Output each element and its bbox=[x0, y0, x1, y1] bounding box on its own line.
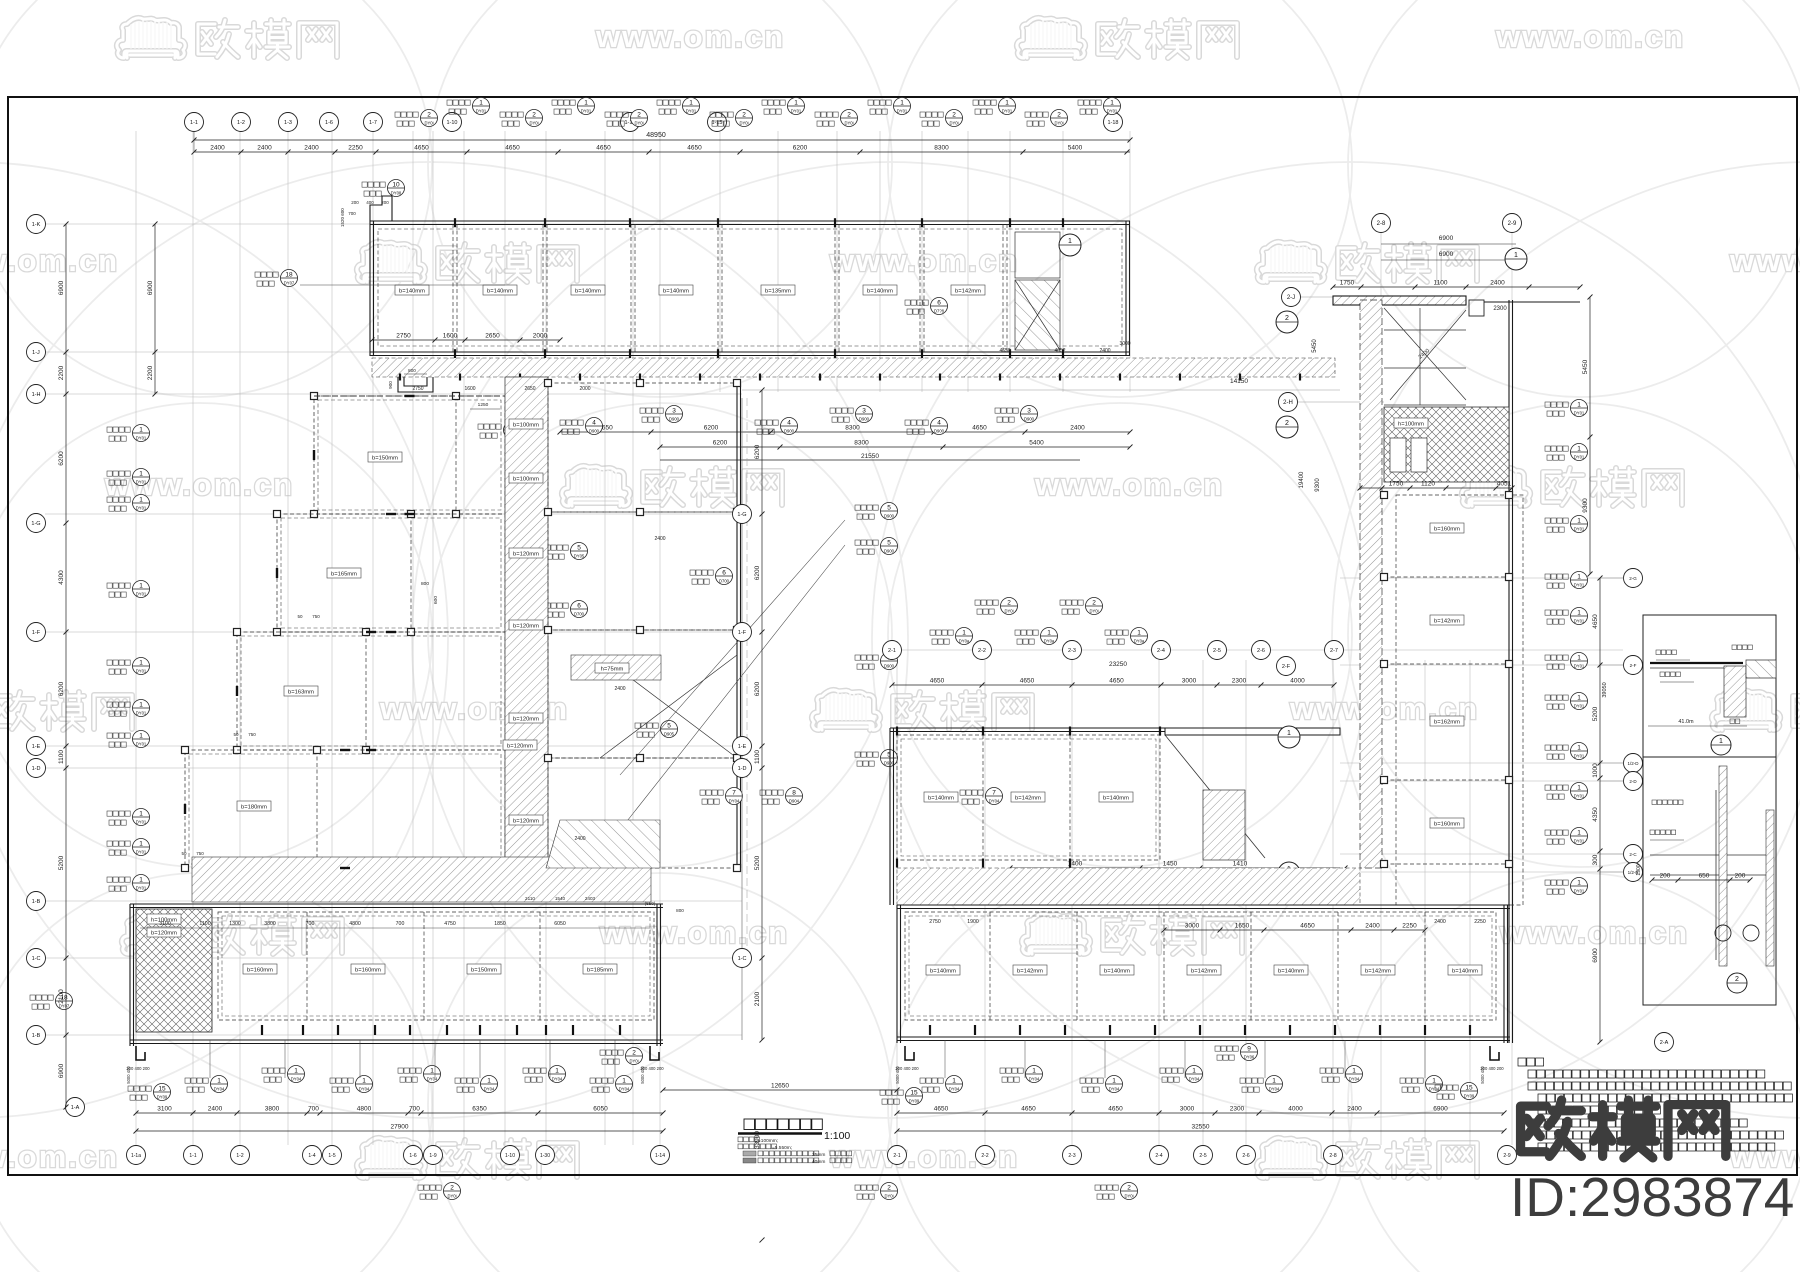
svg-text:1850: 1850 bbox=[494, 921, 506, 927]
svg-text:DY01: DY01 bbox=[686, 109, 697, 114]
svg-text:5450: 5450 bbox=[1312, 339, 1318, 353]
svg-text:b=142mm: b=142mm bbox=[1015, 796, 1041, 802]
top wing room labels bbox=[395, 285, 985, 295]
svg-text:3: 3 bbox=[862, 408, 866, 415]
svg-text:15: 15 bbox=[1465, 1085, 1473, 1092]
svg-text:4650: 4650 bbox=[934, 1106, 949, 1113]
svg-text:1: 1 bbox=[555, 1068, 559, 1075]
svg-text:DY09: DY09 bbox=[157, 1095, 168, 1100]
svg-text:1100: 1100 bbox=[754, 750, 761, 764]
svg-text:DY01: DY01 bbox=[897, 109, 908, 114]
svg-text:2-8: 2-8 bbox=[1377, 221, 1386, 227]
svg-text:www.om.cn: www.om.cn bbox=[1495, 19, 1685, 54]
svg-text:4650: 4650 bbox=[1020, 678, 1035, 685]
svg-text:200: 200 bbox=[381, 200, 389, 205]
svg-text:1: 1 bbox=[952, 1078, 956, 1085]
svg-text:400: 400 bbox=[366, 200, 374, 205]
svg-text:2-3: 2-3 bbox=[1068, 648, 1076, 654]
svg-text:750: 750 bbox=[196, 851, 204, 856]
svg-text:2: 2 bbox=[742, 112, 746, 119]
svg-text:2: 2 bbox=[1285, 420, 1289, 427]
svg-text:b=120mm: b=120mm bbox=[513, 717, 539, 723]
svg-text:b=120mm: b=120mm bbox=[507, 744, 533, 750]
right bottom grid bubbles bbox=[888, 1146, 1517, 1165]
dims under top wing bbox=[372, 339, 560, 341]
svg-text:b=142mm: b=142mm bbox=[1365, 969, 1391, 975]
svg-text:4051: 4051 bbox=[1497, 481, 1512, 488]
svg-text:1: 1 bbox=[139, 583, 143, 590]
svg-text:5200: 5200 bbox=[58, 855, 65, 870]
svg-text:www.om.cn: www.om.cn bbox=[0, 243, 119, 278]
svg-text:4300: 4300 bbox=[58, 570, 65, 585]
svg-text:DY01: DY01 bbox=[136, 850, 147, 855]
svg-text:2: 2 bbox=[952, 112, 956, 119]
svg-text:1: 1 bbox=[1047, 630, 1051, 637]
svg-text:3100: 3100 bbox=[157, 1106, 172, 1113]
svg-text:DY01: DY01 bbox=[1574, 583, 1585, 588]
svg-text:1: 1 bbox=[1719, 738, 1723, 745]
svg-text:2-G: 2-G bbox=[1629, 576, 1637, 581]
svg-text:2400: 2400 bbox=[1099, 348, 1110, 354]
svg-text:1: 1 bbox=[139, 733, 143, 740]
top dim chain bbox=[194, 151, 1130, 153]
callouts under wing bbox=[560, 406, 1038, 435]
svg-text:4650: 4650 bbox=[999, 348, 1010, 354]
svg-text:b=150mm: b=150mm bbox=[372, 456, 398, 462]
svg-text:1-1: 1-1 bbox=[190, 120, 198, 126]
svg-text:1: 1 bbox=[1577, 446, 1581, 453]
svg-text:DY0a: DY0a bbox=[959, 639, 970, 644]
inner left vdim bbox=[154, 224, 156, 394]
bottom-left callouts bbox=[128, 1048, 643, 1101]
svg-text:4652: 4652 bbox=[1054, 348, 1065, 354]
svg-text:1750: 1750 bbox=[1389, 481, 1404, 488]
detail box 2 bbox=[1636, 757, 1776, 1005]
svg-text:1-1a: 1-1a bbox=[131, 1153, 141, 1159]
right building bubble row bbox=[883, 641, 1344, 676]
svg-text:DY01: DY01 bbox=[1574, 794, 1585, 799]
svg-text:1: 1 bbox=[900, 100, 904, 107]
svg-text:1-2: 1-2 bbox=[237, 120, 245, 126]
right bottom wing bbox=[897, 905, 1510, 1043]
svg-text:DY01: DY01 bbox=[1574, 704, 1585, 709]
svg-text:1-18: 1-18 bbox=[1107, 120, 1118, 126]
svg-text:DY01: DY01 bbox=[136, 669, 147, 674]
svg-text:DY0i: DY0i bbox=[447, 1194, 456, 1199]
svg-text:b=142mm: b=142mm bbox=[1017, 969, 1043, 975]
svg-text:DY01: DY01 bbox=[136, 592, 147, 597]
svg-text:7: 7 bbox=[992, 790, 996, 797]
svg-text:1540: 1540 bbox=[555, 896, 566, 901]
svg-text:6200: 6200 bbox=[754, 565, 761, 580]
svg-text:DY01: DY01 bbox=[136, 480, 147, 485]
svg-text:1-1: 1-1 bbox=[189, 1153, 196, 1159]
svg-text:1: 1 bbox=[294, 1068, 298, 1075]
svg-text:650: 650 bbox=[1699, 873, 1710, 880]
svg-text:1: 1 bbox=[1287, 730, 1291, 737]
svg-text:1-5: 1-5 bbox=[328, 1153, 335, 1159]
svg-text:2-1: 2-1 bbox=[893, 1153, 900, 1159]
svg-text:9300: 9300 bbox=[1582, 498, 1589, 513]
mid bubbles column bbox=[733, 505, 752, 968]
tower walls bbox=[1333, 296, 1580, 1043]
svg-text:4650: 4650 bbox=[930, 678, 945, 685]
svg-text:b=140mm: b=140mm bbox=[928, 796, 954, 802]
svg-text:1-C: 1-C bbox=[32, 956, 41, 962]
svg-text:DY07: DY07 bbox=[284, 281, 295, 286]
svg-text:1: 1 bbox=[1110, 100, 1114, 107]
svg-text:1: 1 bbox=[139, 877, 143, 884]
svg-text:2750: 2750 bbox=[396, 333, 411, 340]
svg-text:D700: D700 bbox=[719, 579, 730, 584]
svg-text:2250: 2250 bbox=[1474, 919, 1486, 925]
svg-text:1750: 1750 bbox=[1340, 280, 1355, 287]
svg-text:D900: D900 bbox=[669, 417, 680, 422]
right column rooms bbox=[1381, 492, 1524, 906]
svg-text:2-J: 2-J bbox=[1287, 295, 1295, 301]
svg-text:2: 2 bbox=[427, 112, 431, 119]
svg-text:6200: 6200 bbox=[704, 425, 719, 432]
svg-text:2: 2 bbox=[1285, 315, 1289, 322]
svg-text:DY04: DY04 bbox=[619, 1087, 630, 1092]
svg-text:DY01: DY01 bbox=[1574, 411, 1585, 416]
svg-text:5: 5 bbox=[577, 545, 581, 552]
mid vertical dim chain bbox=[761, 390, 763, 1040]
svg-text:DY0i: DY0i bbox=[1054, 121, 1063, 126]
svg-text:1: 1 bbox=[139, 427, 143, 434]
left grid bubbles bbox=[27, 215, 85, 1117]
svg-text:3: 3 bbox=[1027, 408, 1031, 415]
svg-text:1-E: 1-E bbox=[32, 744, 41, 750]
svg-text:www.om.cn: www.om.cn bbox=[0, 1139, 119, 1174]
svg-text:www.om.cn: www.om.cn bbox=[595, 19, 785, 54]
svg-text:4000: 4000 bbox=[1288, 1106, 1303, 1113]
svg-text:DY09: DY09 bbox=[1464, 1094, 1475, 1099]
svg-text:2300: 2300 bbox=[1493, 306, 1507, 312]
svg-text:1-F: 1-F bbox=[32, 630, 41, 636]
svg-text:DY0i: DY0i bbox=[739, 121, 748, 126]
svg-text:D900: D900 bbox=[884, 664, 895, 669]
svg-text:3000: 3000 bbox=[1185, 923, 1200, 930]
svg-text:3000: 3000 bbox=[1180, 1106, 1195, 1113]
stepped room mid-edge ticks bbox=[185, 396, 415, 868]
svg-text:800: 800 bbox=[408, 368, 416, 373]
svg-text:1: 1 bbox=[217, 1078, 221, 1085]
svg-text:DY01: DY01 bbox=[136, 886, 147, 891]
svg-text:6200: 6200 bbox=[754, 681, 761, 696]
svg-text:DY01: DY01 bbox=[1574, 527, 1585, 532]
svg-text:2: 2 bbox=[1007, 600, 1011, 607]
svg-text:DY01: DY01 bbox=[1002, 109, 1013, 114]
bottom-left corridor hatch bbox=[192, 857, 651, 902]
svg-text:5000 400: 5000 400 bbox=[640, 1066, 645, 1084]
svg-text:1-9: 1-9 bbox=[429, 1153, 436, 1159]
svg-text:b=142mm: b=142mm bbox=[1191, 969, 1217, 975]
tower hatched shaft wall bbox=[1360, 300, 1382, 868]
svg-text:700: 700 bbox=[409, 1106, 420, 1113]
svg-text:DY0i: DY0i bbox=[949, 121, 958, 126]
svg-text:DY04: DY04 bbox=[1029, 1077, 1040, 1082]
svg-text:41.0m: 41.0m bbox=[1678, 719, 1694, 725]
svg-text:6200: 6200 bbox=[58, 451, 65, 466]
svg-text:1: 1 bbox=[794, 100, 798, 107]
svg-text:b=140mm: b=140mm bbox=[867, 289, 893, 295]
svg-text:DY04: DY04 bbox=[1429, 1087, 1440, 1092]
svg-text:1: 1 bbox=[430, 1068, 434, 1075]
svg-text:39050: 39050 bbox=[1602, 682, 1608, 697]
svg-text:DY04: DY04 bbox=[1349, 1077, 1360, 1082]
svg-text:www.om.cn: www.om.cn bbox=[1729, 243, 1800, 278]
svg-text:DY0i: DY0i bbox=[634, 121, 643, 126]
svg-text:8: 8 bbox=[792, 790, 796, 797]
left building vertical corridor bbox=[505, 377, 548, 868]
svg-text:6900: 6900 bbox=[1433, 1106, 1448, 1113]
svg-text:1: 1 bbox=[622, 1078, 626, 1085]
svg-text:1: 1 bbox=[1032, 1068, 1036, 1075]
svg-text:1: 1 bbox=[139, 841, 143, 848]
svg-text:2-6: 2-6 bbox=[1242, 1153, 1249, 1159]
svg-text:2-4: 2-4 bbox=[1155, 1153, 1162, 1159]
svg-text:4650: 4650 bbox=[1021, 1106, 1036, 1113]
svg-text:1:100: 1:100 bbox=[824, 1130, 850, 1142]
tower top bubbles bbox=[1372, 214, 1528, 271]
svg-text:5000 400: 5000 400 bbox=[126, 1066, 131, 1084]
svg-text:1900: 1900 bbox=[1636, 864, 1642, 875]
svg-text:DY04: DY04 bbox=[949, 1087, 960, 1092]
svg-text:1: 1 bbox=[139, 660, 143, 667]
svg-text:2400: 2400 bbox=[257, 145, 272, 152]
svg-text:b=140mm: b=140mm bbox=[1278, 969, 1304, 975]
svg-text:6: 6 bbox=[937, 300, 941, 307]
svg-text:2-5: 2-5 bbox=[1213, 648, 1221, 654]
svg-text:4000: 4000 bbox=[1290, 678, 1305, 685]
right vertical dim chain bbox=[1599, 578, 1601, 1042]
svg-text:D900: D900 bbox=[884, 549, 895, 554]
top wing stair bbox=[1015, 232, 1081, 350]
svg-text:35mm: 35mm bbox=[812, 1152, 825, 1158]
svg-text:DY05: DY05 bbox=[574, 554, 585, 559]
svg-text:www.om.cn: www.om.cn bbox=[104, 467, 294, 502]
svg-text:9: 9 bbox=[1247, 1046, 1251, 1053]
svg-text:DY01: DY01 bbox=[136, 742, 147, 747]
svg-text:1100: 1100 bbox=[58, 750, 65, 764]
svg-text:1: 1 bbox=[1352, 1068, 1356, 1075]
svg-text:1-A: 1-A bbox=[71, 1105, 80, 1111]
svg-text:4: 4 bbox=[937, 420, 941, 427]
top wing room dividers bbox=[378, 218, 1122, 358]
top grid bubbles bbox=[185, 113, 1123, 132]
svg-text:1900: 1900 bbox=[967, 919, 979, 925]
svg-text:2100: 2100 bbox=[754, 991, 761, 1006]
svg-text:D900: D900 bbox=[884, 514, 895, 519]
svg-text:4800: 4800 bbox=[357, 1106, 372, 1113]
svg-text:1: 1 bbox=[487, 1078, 491, 1085]
svg-text:5: 5 bbox=[887, 752, 891, 759]
svg-text:DY09: DY09 bbox=[909, 1099, 920, 1104]
svg-text:3000: 3000 bbox=[1119, 341, 1130, 347]
svg-text:2200: 2200 bbox=[147, 365, 154, 380]
svg-text:1-6: 1-6 bbox=[409, 1153, 416, 1159]
svg-text:5200: 5200 bbox=[754, 855, 761, 870]
svg-text:5000 400: 5000 400 bbox=[1480, 1066, 1485, 1084]
svg-text:1: 1 bbox=[1514, 252, 1518, 259]
svg-text:4650: 4650 bbox=[687, 145, 702, 152]
svg-text:2-1: 2-1 bbox=[888, 648, 896, 654]
left vertical dim chain bbox=[65, 224, 67, 1107]
svg-text:2-2: 2-2 bbox=[981, 1153, 988, 1159]
svg-text:b=150mm: b=150mm bbox=[471, 968, 497, 974]
svg-text:DY01: DY01 bbox=[1574, 754, 1585, 759]
svg-text:2400: 2400 bbox=[654, 536, 665, 542]
svg-text:1-2: 1-2 bbox=[236, 1153, 243, 1159]
svg-text:200: 200 bbox=[1735, 873, 1746, 880]
svg-text:6200: 6200 bbox=[58, 681, 65, 696]
svg-text:1-G: 1-G bbox=[31, 521, 40, 527]
svg-text:10: 10 bbox=[392, 182, 400, 189]
svg-text:2650: 2650 bbox=[524, 386, 535, 392]
svg-text:h=100mm: h=100mm bbox=[1398, 422, 1424, 428]
svg-text:DY0i: DY0i bbox=[884, 1194, 893, 1199]
svg-text:2650: 2650 bbox=[485, 333, 500, 340]
right corridor hatch bbox=[897, 868, 1360, 905]
svg-text:6900: 6900 bbox=[1439, 251, 1454, 258]
svg-text:700: 700 bbox=[396, 921, 405, 927]
svg-text:DY01: DY01 bbox=[1107, 109, 1118, 114]
svg-text:4650: 4650 bbox=[1108, 1106, 1123, 1113]
svg-text:DY01: DY01 bbox=[581, 109, 592, 114]
svg-text:700: 700 bbox=[348, 211, 356, 216]
svg-text:1-7: 1-7 bbox=[369, 120, 377, 126]
gap dim 12650 bbox=[663, 1089, 897, 1091]
svg-text:DY0i: DY0i bbox=[424, 121, 433, 126]
svg-text:b=140mm: b=140mm bbox=[399, 289, 425, 295]
svg-text:2: 2 bbox=[450, 1185, 454, 1192]
right building top callouts bbox=[930, 598, 1148, 645]
svg-text:DY01: DY01 bbox=[136, 711, 147, 716]
svg-text:21550: 21550 bbox=[861, 453, 879, 460]
svg-text:15: 15 bbox=[158, 1086, 166, 1093]
svg-text:DY04: DY04 bbox=[291, 1077, 302, 1082]
svg-text:5200: 5200 bbox=[1592, 706, 1599, 721]
svg-text:2250: 2250 bbox=[1402, 923, 1417, 930]
svg-text:1-30: 1-30 bbox=[540, 1153, 550, 1159]
svg-text:1450: 1450 bbox=[1163, 861, 1178, 868]
svg-text:b=120mm: b=120mm bbox=[513, 624, 539, 630]
top callout band bbox=[395, 98, 1121, 127]
svg-text:4650: 4650 bbox=[972, 425, 987, 432]
svg-text:5000 400: 5000 400 bbox=[895, 1066, 900, 1084]
svg-text:2: 2 bbox=[632, 1050, 636, 1057]
svg-text:3800: 3800 bbox=[264, 921, 276, 927]
svg-text:www.om.cn: www.om.cn bbox=[1034, 467, 1224, 502]
svg-text:b=120mm: b=120mm bbox=[151, 931, 177, 937]
svg-text:2400: 2400 bbox=[208, 1106, 223, 1113]
svg-text:2-F: 2-F bbox=[1630, 663, 1637, 668]
svg-text:2: 2 bbox=[847, 112, 851, 119]
corridor junction notch bbox=[388, 368, 521, 439]
svg-text:b=135mm: b=135mm bbox=[765, 289, 791, 295]
svg-text:DY01: DY01 bbox=[1574, 455, 1585, 460]
svg-text:1250: 1250 bbox=[478, 402, 489, 408]
svg-text:DY06: DY06 bbox=[1244, 1055, 1255, 1060]
svg-text:6: 6 bbox=[722, 570, 726, 577]
svg-text:DY01: DY01 bbox=[1574, 889, 1585, 894]
svg-text:1100: 1100 bbox=[1434, 280, 1448, 287]
svg-text:D7?8: D7?8 bbox=[934, 309, 945, 314]
svg-text:50: 50 bbox=[233, 732, 239, 737]
svg-text:1: 1 bbox=[962, 630, 966, 637]
svg-text:DY04: DY04 bbox=[1189, 1077, 1200, 1082]
svg-text:2-9: 2-9 bbox=[1508, 221, 1517, 227]
svg-text:1: 1 bbox=[1192, 1068, 1196, 1075]
svg-text:2: 2 bbox=[532, 112, 536, 119]
bottom-left wing bbox=[130, 904, 663, 1046]
svg-text:2-3: 2-3 bbox=[1068, 1153, 1075, 1159]
svg-text:1: 1 bbox=[1432, 1078, 1436, 1085]
svg-text:1: 1 bbox=[1068, 238, 1072, 245]
bottom-left grid bubbles bbox=[127, 1146, 670, 1165]
svg-text:4650: 4650 bbox=[596, 145, 611, 152]
svg-text:b=100mm: b=100mm bbox=[513, 477, 539, 483]
svg-text:b=160mm: b=160mm bbox=[1434, 822, 1460, 828]
svg-text:DY01: DY01 bbox=[1574, 619, 1585, 624]
svg-text:1-E: 1-E bbox=[738, 744, 747, 750]
svg-text:1-14: 1-14 bbox=[655, 1153, 665, 1159]
elevator crosshatch bbox=[1384, 407, 1509, 482]
svg-text:1: 1 bbox=[584, 100, 588, 107]
inner dim text row left wing bbox=[140, 919, 979, 928]
svg-text:h=75mm: h=75mm bbox=[601, 667, 624, 673]
svg-text:2400: 2400 bbox=[614, 686, 625, 692]
svg-text:D900: D900 bbox=[589, 429, 600, 434]
svg-text:18: 18 bbox=[285, 272, 293, 279]
svg-text:2400: 2400 bbox=[1347, 1106, 1362, 1113]
svg-text:DY01: DY01 bbox=[476, 109, 487, 114]
svg-text:1: 1 bbox=[1577, 695, 1581, 702]
svg-text:D904: D904 bbox=[789, 799, 800, 804]
svg-text:7: 7 bbox=[732, 790, 736, 797]
svg-text:700: 700 bbox=[308, 1106, 319, 1113]
svg-text:D900: D900 bbox=[1024, 417, 1035, 422]
svg-text:800: 800 bbox=[421, 581, 429, 587]
svg-text:2-7: 2-7 bbox=[1330, 648, 1338, 654]
svg-text:200: 200 bbox=[351, 200, 359, 205]
svg-text:2-5: 2-5 bbox=[1199, 1153, 1206, 1159]
svg-text:2400: 2400 bbox=[1434, 919, 1446, 925]
svg-text:2: 2 bbox=[637, 112, 641, 119]
svg-text:DY01: DY01 bbox=[1574, 839, 1585, 844]
svg-text:4650: 4650 bbox=[1592, 614, 1599, 629]
svg-text:2: 2 bbox=[1735, 976, 1739, 983]
svg-text:1: 1 bbox=[1005, 100, 1009, 107]
svg-text:1-10: 1-10 bbox=[446, 120, 457, 126]
svg-text:DY01: DY01 bbox=[1574, 664, 1585, 669]
svg-text:DY04: DY04 bbox=[359, 1087, 370, 1092]
svg-text:2400: 2400 bbox=[1365, 923, 1380, 930]
svg-text:1520: 1520 bbox=[340, 216, 345, 227]
svg-text:2: 2 bbox=[1092, 600, 1096, 607]
svg-text:5: 5 bbox=[887, 540, 891, 547]
svg-text:750: 750 bbox=[312, 614, 320, 619]
svg-text:600: 600 bbox=[433, 596, 439, 604]
svg-text:2400: 2400 bbox=[210, 145, 225, 152]
svg-text:b=142mm: b=142mm bbox=[955, 289, 981, 295]
svg-text:1-H: 1-H bbox=[32, 392, 41, 398]
svg-text:4750: 4750 bbox=[444, 921, 456, 927]
svg-text:4800: 4800 bbox=[349, 921, 361, 927]
svg-text:1: 1 bbox=[1577, 402, 1581, 409]
svg-text:4650: 4650 bbox=[414, 145, 429, 152]
